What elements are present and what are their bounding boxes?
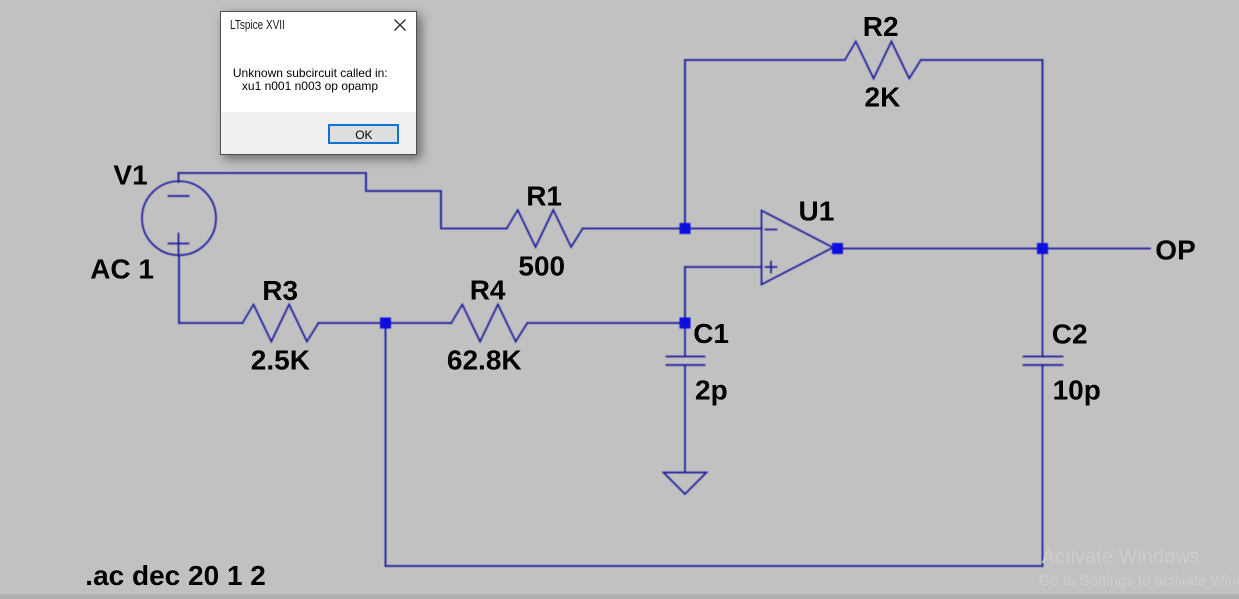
node junction plus/R4/C1 (680, 318, 691, 329)
node junction output/C2 (1037, 243, 1048, 254)
voltage source V1 (142, 181, 216, 255)
ground (664, 473, 707, 495)
wire V1 bottom stub (178, 255, 180, 323)
wire R3 to R4 (319, 322, 452, 324)
svg-text:OP: OP (1155, 235, 1195, 266)
node op-amp output (832, 243, 843, 254)
capacitor C1 (667, 323, 705, 472)
wire plus input horizontal (685, 266, 762, 268)
dialog button strip (221, 112, 416, 154)
svg-text:C2: C2 (1052, 318, 1088, 349)
wire plus input vertical (684, 267, 686, 323)
svg-text:10p: 10p (1053, 375, 1101, 406)
wire top to R2 (685, 59, 845, 61)
svg-text:Activate Windows: Activate Windows (1042, 546, 1200, 568)
wire right feedback vertical (1042, 60, 1044, 249)
svg-text:Go to Settings to activate Win: Go to Settings to activate Windo (1039, 572, 1239, 589)
dialog title (230, 18, 285, 32)
svg-text:.ac dec 20 1 2: .ac dec 20 1 2 (85, 560, 266, 591)
svg-text:62.8K: 62.8K (447, 345, 522, 376)
svg-text:R4: R4 (470, 274, 506, 305)
wire R1 to op-amp minus input (583, 228, 762, 230)
svg-text:R2: R2 (863, 11, 899, 42)
dialog close X (394, 19, 406, 31)
svg-text:R3: R3 (262, 275, 298, 306)
wire node A down vertical (385, 323, 387, 566)
dialog message line 2 (242, 79, 378, 93)
wire V1 top to R1 (179, 173, 507, 229)
wire V1 to R3 (179, 322, 243, 324)
resistor R1 (507, 210, 583, 247)
bottom edge bar (0, 595, 1239, 599)
wire R2 to right vertical (921, 59, 1043, 61)
node junction R1/feedback (680, 223, 691, 234)
wire bottom horizontal (386, 565, 1043, 567)
svg-text:U1: U1 (799, 196, 835, 227)
dialog message line 1 (233, 66, 388, 80)
svg-text:AC 1: AC 1 (90, 253, 154, 284)
resistor R2 (845, 42, 921, 79)
dialog OK button (328, 124, 399, 144)
svg-text:2K: 2K (865, 81, 901, 112)
svg-text:2.5K: 2.5K (251, 345, 310, 376)
op-amp U1 (762, 211, 834, 285)
capacitor C2 (1024, 249, 1063, 567)
svg-text:V1: V1 (113, 159, 147, 190)
resistor R3 (243, 305, 319, 342)
wire R4 to C1 node (527, 322, 685, 324)
svg-text:500: 500 (518, 251, 565, 282)
wire feedback left vertical (684, 60, 686, 229)
node junction R3/R4 (380, 318, 391, 329)
dialog LTspice XVII (220, 11, 417, 155)
svg-text:C1: C1 (693, 318, 729, 349)
wire op-amp output to OP (843, 248, 1150, 250)
svg-text:2p: 2p (695, 374, 728, 405)
resistor R4 (451, 305, 527, 342)
svg-text:R1: R1 (526, 180, 562, 211)
